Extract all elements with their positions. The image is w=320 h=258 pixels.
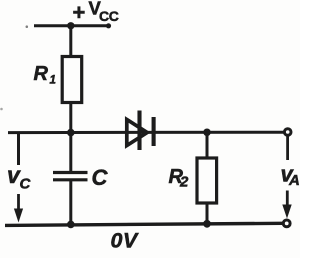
- diode D1 second bar: [152, 117, 156, 146]
- node terminal output bottom circle: [283, 220, 290, 227]
- wire R2 lower lead: [206, 203, 209, 226]
- wire C upper lead: [69, 133, 72, 172]
- node terminal output top circle: [284, 129, 291, 136]
- wire Vcc to R1: [69, 26, 72, 58]
- diode D1 cathode long bar: [137, 111, 141, 151]
- svg-text:1: 1: [50, 75, 56, 87]
- diode D1 triangle: [127, 120, 147, 146]
- speck: [26, 26, 28, 28]
- svg-text:A: A: [288, 172, 300, 189]
- wire top rail +Vcc: [34, 24, 110, 27]
- wire vA arrow shaft: [286, 191, 289, 206]
- svg-text:CC: CC: [99, 8, 119, 24]
- wire C lower lead: [69, 181, 72, 225]
- resistor R2: [197, 158, 217, 203]
- svg-text:R: R: [34, 63, 49, 85]
- node junction Vcc / R1: [67, 22, 74, 29]
- svg-text:2: 2: [179, 174, 189, 191]
- node junction bottom / R2: [203, 220, 211, 228]
- wire R1 to mid node: [69, 103, 72, 135]
- wire vA arrowhead: [282, 205, 291, 219]
- svg-text:+: +: [73, 0, 86, 25]
- node junction bottom / C: [67, 221, 75, 229]
- svg-text:0V: 0V: [111, 228, 139, 252]
- wire R2 upper lead: [206, 132, 209, 159]
- node top rail right end dot: [106, 23, 111, 28]
- wire left stub vC: [17, 133, 20, 165]
- node junction mid / R2: [203, 129, 211, 137]
- wire vC arrow shaft: [17, 194, 20, 210]
- capacitor C top plate: [53, 171, 88, 174]
- wire vA top lead: [286, 136, 289, 160]
- svg-text:C: C: [92, 165, 109, 190]
- wire mid horizontal line: [8, 131, 284, 134]
- wire vC arrowhead: [14, 209, 23, 223]
- svg-text:C: C: [20, 176, 32, 193]
- node junction mid / C: [67, 129, 75, 137]
- capacitor C bottom plate: [53, 178, 88, 181]
- wire bottom rail 0V: [5, 223, 282, 225]
- resistor R1: [62, 57, 81, 103]
